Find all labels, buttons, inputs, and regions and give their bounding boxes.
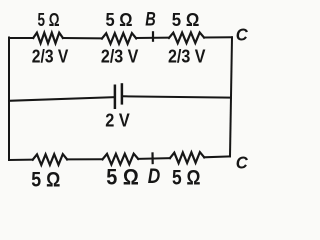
svg-text:5 Ω: 5 Ω <box>31 167 60 191</box>
svg-text:2/3 V: 2/3 V <box>168 47 206 67</box>
wire: bottom rail, right segment to corner C <box>204 155 230 158</box>
resistor R3 (top-right, 5 ohm) <box>169 32 204 43</box>
wire: bottom rail between R5 and R6 through node D <box>138 157 170 160</box>
wire: middle rail, left of cell <box>9 97 114 101</box>
wire: bottom rail, left segment <box>9 159 33 161</box>
svg-text:C: C <box>236 152 248 172</box>
svg-text:2 V: 2 V <box>105 109 130 130</box>
svg-text:5 Ω: 5 Ω <box>172 10 200 30</box>
svg-text:5 Ω: 5 Ω <box>106 164 139 189</box>
wire: top rail, left segment <box>9 37 33 39</box>
svg-text:2/3 V: 2/3 V <box>101 47 138 67</box>
svg-text:B: B <box>145 10 156 31</box>
svg-text:5 Ω: 5 Ω <box>106 10 133 30</box>
wire: middle rail, right of cell <box>123 96 231 97</box>
wire: left vertical rail <box>8 38 10 161</box>
svg-text:D: D <box>148 165 161 188</box>
wire: top rail, right segment to corner C <box>204 36 232 38</box>
resistor R4 (bottom-left, 5 ohm) <box>33 154 67 165</box>
resistor R1 (top-left, 5 ohm) <box>33 33 63 44</box>
svg-text:5 Ω: 5 Ω <box>38 10 60 30</box>
wire: top rail between R1 and R2 <box>63 37 102 39</box>
wire: top rail between R2 and R3 through node B <box>136 37 169 39</box>
resistor R6 (bottom-right, 5 ohm) <box>170 152 204 163</box>
wire: bottom rail between R4 and R5 <box>67 158 102 160</box>
battery cell E1 right plate <box>121 83 124 104</box>
battery cell E1 left plate <box>114 85 117 110</box>
svg-text:5 Ω: 5 Ω <box>172 166 201 190</box>
svg-text:2/3 V: 2/3 V <box>32 46 69 66</box>
resistor R5 (bottom-middle, 5 ohm) <box>103 154 139 165</box>
node D tick <box>151 152 153 164</box>
node B tick <box>152 31 154 42</box>
resistor R2 (top-middle, 5 ohm) <box>102 33 136 44</box>
wire: right vertical rail <box>230 37 232 156</box>
svg-text:C: C <box>236 24 248 44</box>
